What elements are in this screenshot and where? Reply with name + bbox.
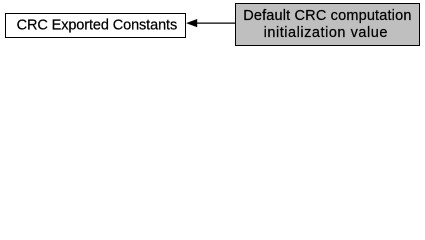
svg-text:initialization value: initialization value — [264, 25, 388, 41]
node: CRC Exported Constants (parent group box) — [6, 14, 186, 38]
edge: membership arrow pointing from current group to parent group — [187, 19, 236, 26]
svg-text:Default CRC computation: Default CRC computation — [243, 8, 411, 24]
svg-text:CRC Exported Constants: CRC Exported Constants — [17, 18, 178, 34]
node: Default CRC computation initialization value (current group, grey filled) — [236, 4, 420, 46]
